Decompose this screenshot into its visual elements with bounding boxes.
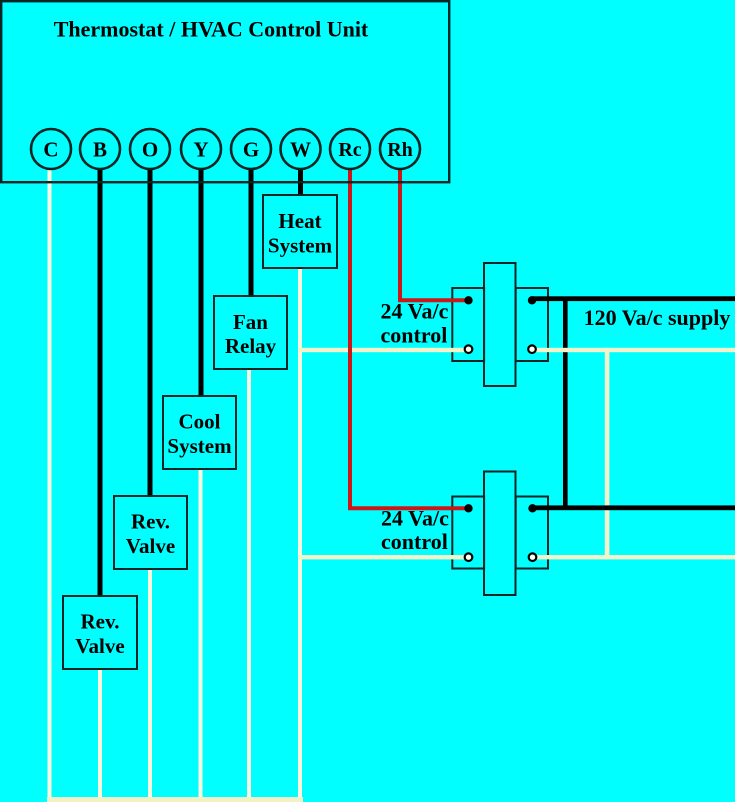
svg-text:Thermostat / HVAC Control Unit: Thermostat / HVAC Control Unit (54, 17, 369, 42)
svg-text:Heat: Heat (278, 209, 321, 233)
transformer T2 right pad (516, 497, 548, 569)
T2 primary dot (filled) (464, 504, 472, 512)
thermostat control unit box (1, 1, 449, 182)
terminal O (130, 129, 170, 169)
svg-text:Fan: Fan (233, 310, 268, 334)
transformer T2 left pad (452, 497, 484, 569)
svg-text:System: System (167, 434, 232, 458)
svg-text:Valve: Valve (126, 534, 175, 558)
cream vertical joining secondaries (605, 348, 610, 560)
T2 line secondary dot (open) (529, 553, 537, 561)
cream branch from T1 secondary (right) (532, 348, 735, 352)
wire O (black) terminal O to Rev.Valve1 (148, 165, 153, 498)
svg-text:Cool: Cool (179, 410, 221, 434)
wire G (black) terminal G to Fan Relay (249, 165, 254, 298)
svg-text:24 Va/c: 24 Va/c (381, 506, 449, 531)
wire C (cream) from terminal C to bottom bus (48, 165, 52, 802)
cream branch to T1 secondary (left) (298, 348, 469, 352)
wire B (black) terminal B to Rev.Valve2 (98, 165, 103, 598)
cream branch from T2 secondary (right) (533, 555, 735, 559)
wire Rev.Valve2 output (cream) (98, 667, 102, 802)
svg-text:24 Va/c: 24 Va/c (381, 299, 449, 324)
T1 secondary dot (open) (465, 345, 473, 353)
svg-text:Relay: Relay (225, 334, 277, 358)
wire Y (black) terminal Y to Cool System (199, 165, 204, 398)
Rev. Valve 1 box (114, 496, 187, 569)
svg-text:Y: Y (193, 138, 208, 162)
black vertical joining 120V buses (563, 297, 568, 511)
black bus 120V from T2 (532, 505, 735, 510)
T1 line dot (filled) (528, 296, 536, 304)
cream branch to T2 secondary (left) (298, 555, 469, 559)
svg-text:Rh: Rh (387, 139, 413, 161)
terminal Rc (330, 129, 370, 169)
svg-text:control: control (381, 529, 448, 554)
terminal B (80, 129, 120, 169)
svg-text:Rev.: Rev. (80, 610, 119, 634)
svg-text:O: O (142, 138, 158, 162)
T1 line secondary dot (open) (528, 345, 536, 353)
terminal Y (181, 129, 221, 169)
Heat System box (263, 195, 337, 268)
wire Rev.Valve1 output (cream) (148, 567, 152, 802)
terminal C (31, 129, 71, 169)
wire Rh (red) to T1 primary (398, 168, 469, 302)
Rev. Valve 2 box (63, 596, 137, 669)
transformer T1 core (484, 263, 516, 386)
svg-text:System: System (268, 234, 333, 258)
svg-text:120 Va/c supply: 120 Va/c supply (584, 305, 731, 330)
svg-text:Valve: Valve (75, 634, 124, 658)
svg-text:Rc: Rc (338, 139, 361, 161)
svg-text:control: control (381, 323, 448, 348)
wire Rc (red) to T2 primary (348, 168, 469, 510)
Cool System box (163, 396, 236, 469)
Fan Relay box (214, 296, 287, 369)
terminal Rh (380, 129, 420, 169)
wire Heat System output (cream) (298, 266, 302, 802)
svg-text:G: G (243, 138, 259, 162)
wire W (black) terminal W to Heat System (298, 165, 303, 197)
svg-text:B: B (93, 138, 107, 162)
bottom bus (cream) (47, 797, 303, 802)
T2 secondary dot (open) (465, 553, 473, 561)
transformer T1 right pad (516, 288, 548, 361)
svg-text:W: W (290, 138, 311, 162)
terminal W (281, 129, 321, 169)
transformer T1 left pad (452, 288, 484, 361)
wire Cool System output (cream) (199, 467, 203, 802)
transformer T2 core (484, 472, 516, 596)
black bus 120V from T1 (532, 296, 735, 301)
T2 line dot (filled) (528, 504, 536, 512)
T1 primary dot (filled) (464, 296, 472, 304)
svg-text:C: C (43, 138, 58, 162)
terminal G (231, 129, 271, 169)
wire Fan Relay output (cream) (247, 367, 251, 802)
svg-text:Rev.: Rev. (131, 510, 170, 534)
